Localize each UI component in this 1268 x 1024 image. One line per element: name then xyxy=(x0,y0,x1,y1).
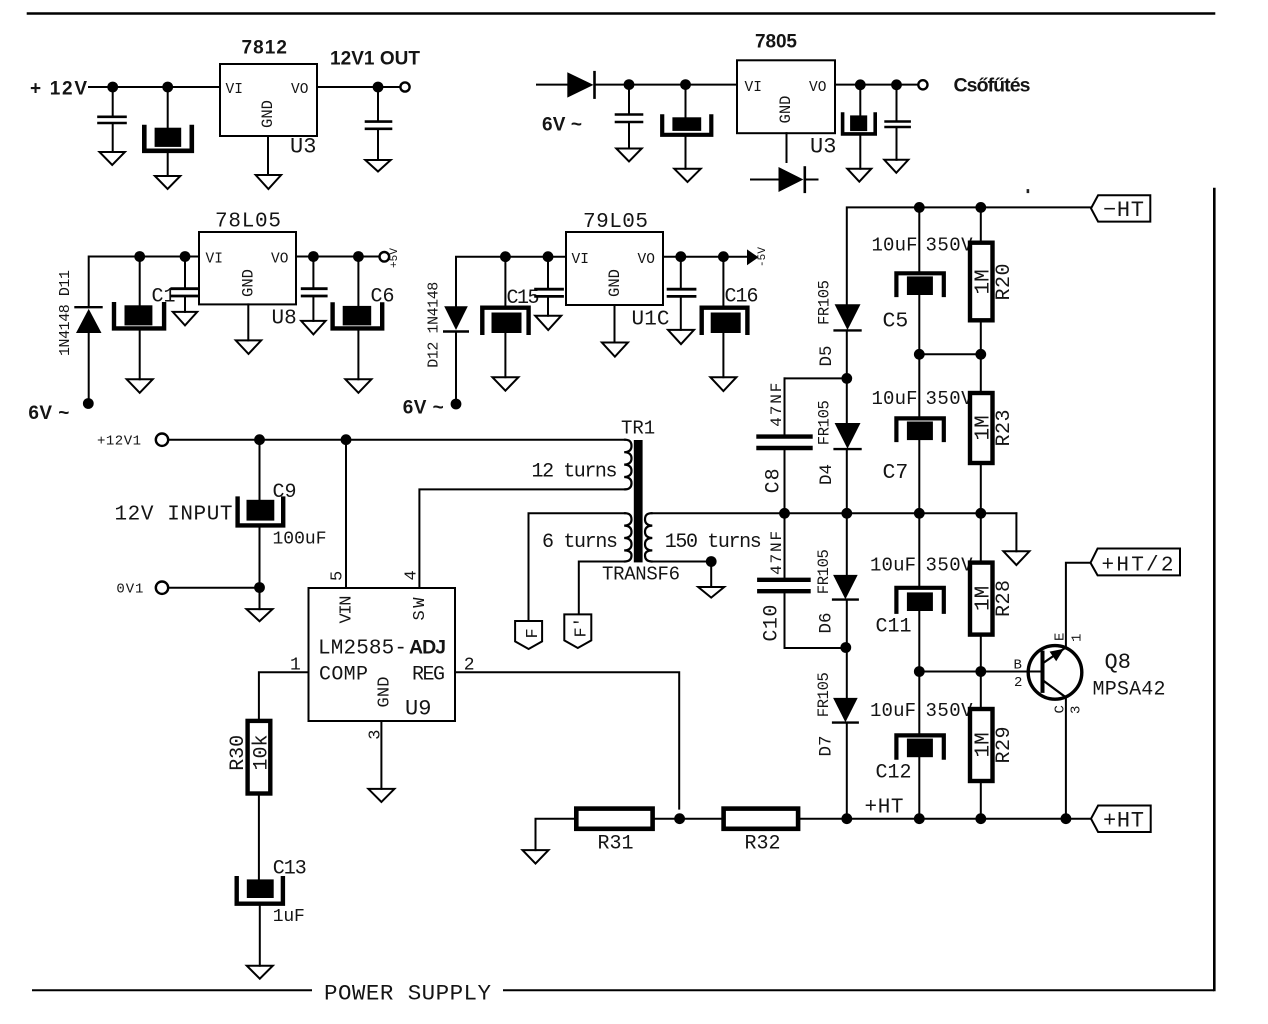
wire node to ground xyxy=(259,588,261,610)
svg-text:FR105: FR105 xyxy=(816,400,834,445)
ground at 7805 input electrolytic xyxy=(674,169,700,182)
svg-text:D12 1N4148: D12 1N4148 xyxy=(426,282,443,368)
svg-text:6V ~: 6V ~ xyxy=(542,115,582,136)
svg-text:POWER SUPPLY: POWER SUPPLY xyxy=(324,981,491,1007)
resistor R20 1M xyxy=(970,207,993,354)
svg-text:350V: 350V xyxy=(926,555,974,577)
svg-text:R20: R20 xyxy=(993,264,1016,301)
svg-text:B: B xyxy=(1014,658,1022,674)
node junction at C15 xyxy=(500,251,511,262)
svg-text:10uF: 10uF xyxy=(872,388,918,410)
svg-text:10uF: 10uF xyxy=(872,235,918,257)
capacitor ceramic at 79L05 VO xyxy=(668,257,695,330)
node junction row D at R23 R28 xyxy=(975,508,986,519)
node junction at C bypass cap xyxy=(107,82,118,93)
ground at C6 xyxy=(345,379,371,393)
ground at U8 GND xyxy=(236,340,261,354)
svg-text:D6: D6 xyxy=(817,612,837,633)
svg-text:FR105: FR105 xyxy=(815,672,833,717)
svg-text:350V: 350V xyxy=(926,700,974,722)
regulator U8 78L05 box xyxy=(199,232,296,304)
node junction at output cap xyxy=(373,82,384,93)
wire SW pin 4 to primary bottom xyxy=(419,489,625,588)
svg-text:2: 2 xyxy=(1014,675,1022,691)
ground at C1 xyxy=(127,379,153,393)
node junction at ceramic xyxy=(180,251,191,262)
svg-text:FR105: FR105 xyxy=(816,280,834,325)
capacitor electrolytic at 7805 output xyxy=(843,85,876,169)
wire row E base row xyxy=(919,671,1041,673)
capacitor ceramic at 78L05 VO xyxy=(302,257,326,321)
svg-text:U3: U3 xyxy=(810,135,836,160)
svg-text:5: 5 xyxy=(329,571,348,581)
node junction R20 bottom xyxy=(975,349,986,360)
svg-text:R31: R31 xyxy=(598,833,634,856)
svg-text:7805: 7805 xyxy=(755,32,797,53)
wire Q8 emitter to +HT/2 flag xyxy=(1066,563,1091,648)
diode D7 FR105 xyxy=(833,648,858,819)
node junction +HT at Q8 collector xyxy=(1061,813,1072,824)
wire node to ground xyxy=(710,562,712,588)
node junction row D at C7 C11 xyxy=(914,508,925,519)
ground at 150 turns xyxy=(698,587,724,598)
svg-text:+HT: +HT xyxy=(865,797,904,820)
node junction at C9 xyxy=(254,434,265,445)
svg-text:U8: U8 xyxy=(272,308,297,331)
wire GND pin 3 xyxy=(380,721,382,789)
svg-text:F: F xyxy=(524,628,543,638)
wire 6 turns bottom to flag F prime xyxy=(579,562,625,616)
wire U1C VO to -5V arrow xyxy=(663,256,747,258)
capacitor C11 electrolytic 10uF 350V xyxy=(896,513,943,671)
arrow -5V output xyxy=(747,249,759,265)
svg-text:12V1 OUT: 12V1 OUT xyxy=(330,49,420,70)
svg-text:C9: C9 xyxy=(273,481,297,504)
svg-text:+HT/2: +HT/2 xyxy=(1102,555,1174,578)
wire node to C8 xyxy=(785,377,847,379)
svg-text:10k: 10k xyxy=(251,735,274,771)
capacitor electrolytic at 7812 input xyxy=(144,87,192,176)
svg-text:GND: GND xyxy=(606,269,624,297)
ground at 7805 input ceramic xyxy=(616,149,641,162)
node junction C5 top xyxy=(914,202,925,213)
svg-text:10uF: 10uF xyxy=(870,700,916,722)
ground at U9 GND xyxy=(368,789,394,802)
capacitor C7 electrolytic 10uF 350V xyxy=(896,354,943,513)
svg-text:−HT: −HT xyxy=(1103,198,1144,223)
svg-text:R30: R30 xyxy=(227,735,250,771)
svg-text:+5V: +5V xyxy=(389,248,401,268)
wire ground stub to R31 xyxy=(536,819,577,850)
svg-text:R32: R32 xyxy=(745,833,781,856)
svg-text:79L05: 79L05 xyxy=(583,211,648,234)
terminal +12V1 open circle xyxy=(156,434,168,446)
svg-text:350V: 350V xyxy=(926,388,974,410)
svg-text:VI: VI xyxy=(206,252,223,268)
node junction R28 R29 xyxy=(975,666,986,677)
capacitor electrolytic at 7805 input xyxy=(662,85,711,169)
svg-text:VI: VI xyxy=(572,252,589,268)
svg-text:D7: D7 xyxy=(817,735,837,756)
capacitor C13 electrolytic 1uF xyxy=(237,878,283,966)
svg-text:+HT: +HT xyxy=(1103,809,1144,834)
node junction at C6 xyxy=(353,251,364,262)
svg-text:+ 12V: + 12V xyxy=(30,79,87,100)
svg-text:VO: VO xyxy=(809,80,826,96)
svg-text:REG: REG xyxy=(412,664,445,687)
svg-text:C8: C8 xyxy=(763,468,786,493)
capacitor C5 electrolytic 10uF 350V xyxy=(896,207,943,354)
capacitor C8 47NF xyxy=(759,378,811,513)
svg-text:R23: R23 xyxy=(993,410,1016,447)
ground at R31 left xyxy=(523,850,549,864)
ground at 7812 input electrolytic xyxy=(155,176,180,189)
wire 6V to diode D12 xyxy=(455,333,457,400)
node junction +HT at C12 xyxy=(914,813,925,824)
svg-text:4: 4 xyxy=(403,570,422,580)
node junction R31 R32 feedback xyxy=(674,813,685,824)
svg-text:6 turns: 6 turns xyxy=(542,531,618,554)
capacitor ceramic at 7812 output xyxy=(366,87,391,160)
svg-text:LM2585-: LM2585- xyxy=(318,638,407,661)
wire COMP pin 1 to R30 xyxy=(259,672,309,721)
node junction +HT at R29 xyxy=(975,813,986,824)
svg-text:3: 3 xyxy=(1069,706,1085,714)
wire U3 VO to output terminal xyxy=(317,86,400,88)
node junction 6V feed xyxy=(83,398,94,409)
svg-text:VIN: VIN xyxy=(338,596,357,624)
wire U1C GND pin xyxy=(614,305,616,343)
ground at VI ceramic xyxy=(173,312,197,326)
svg-text:D5: D5 xyxy=(817,345,837,366)
secondary winding 150 turns xyxy=(645,513,652,561)
diode at 7805 input xyxy=(567,72,594,97)
svg-text:U3: U3 xyxy=(290,135,316,160)
wire row C5 R20 bottom xyxy=(919,353,981,355)
svg-text:COMP: COMP xyxy=(319,664,368,687)
wire 6V input to diode xyxy=(537,84,567,86)
wire +12V1 rail to transformer primary xyxy=(168,439,625,441)
node junction at output ceramic xyxy=(891,79,902,90)
diode D5 FR105 xyxy=(835,304,861,330)
wire Q8 collector to +HT rail xyxy=(1065,697,1067,818)
svg-text:150 turns: 150 turns xyxy=(665,531,762,554)
ground at 7812 output cap xyxy=(365,160,390,172)
ground at 7805 output ceramic xyxy=(884,160,908,173)
resistor R23 1M xyxy=(970,354,993,513)
transistor Q8 MPSA42 xyxy=(1028,646,1082,700)
regulator U3 7805 box xyxy=(737,60,835,133)
wire REG pin 2 to feedback node xyxy=(455,672,679,808)
diode D4 FR105 xyxy=(835,378,861,513)
wire R32 to +HT rail xyxy=(798,818,1091,820)
stray mark xyxy=(1027,189,1030,193)
ground at VO ceramic xyxy=(301,321,325,335)
wire U3 GND pin xyxy=(267,136,269,175)
svg-text:78L05: 78L05 xyxy=(215,211,281,234)
node junction at VO ceramic xyxy=(675,251,686,262)
wire U3 GND pin xyxy=(786,133,788,162)
wire +12V input to U3 VI xyxy=(89,86,220,88)
svg-text:1: 1 xyxy=(1070,634,1086,642)
svg-text:TRANSF6: TRANSF6 xyxy=(602,564,680,586)
svg-text:TR1: TR1 xyxy=(621,418,655,440)
svg-text:GND: GND xyxy=(259,100,277,128)
regulator U3 7812 box xyxy=(220,64,317,136)
wire VIN pin 5 xyxy=(345,440,347,588)
wire U3 VO to terminal xyxy=(835,84,918,86)
wire U8 VO to +5V terminal xyxy=(296,256,380,258)
svg-text:GND: GND xyxy=(240,269,258,297)
terminal 0V1 open circle xyxy=(156,582,168,594)
svg-text:U1C: U1C xyxy=(632,309,670,332)
ground at 7805 output electrolytic xyxy=(847,169,871,182)
resistor R31 xyxy=(576,809,652,829)
capacitor C9 electrolytic 100uF xyxy=(238,440,284,588)
node junction at VI ceramic xyxy=(543,251,554,262)
flag F xyxy=(515,621,542,649)
ground at C16 xyxy=(710,377,736,391)
wire R30 to C13 xyxy=(258,794,260,880)
capacitor C16 electrolytic xyxy=(702,257,748,378)
svg-text:F': F' xyxy=(573,617,592,637)
svg-text:6V ~: 6V ~ xyxy=(403,398,444,419)
svg-text:GND: GND xyxy=(777,96,795,124)
svg-text:3: 3 xyxy=(367,729,386,739)
capacitor C6 electrolytic xyxy=(333,257,383,380)
capacitor ceramic at 7805 output xyxy=(886,85,910,160)
svg-text:C5: C5 xyxy=(883,310,909,334)
node junction D5 D4 C8 xyxy=(841,373,852,384)
svg-text:-5V: -5V xyxy=(757,247,769,267)
svg-text:12V INPUT: 12V INPUT xyxy=(115,504,233,527)
svg-text:C12: C12 xyxy=(876,762,912,785)
wire R31 to R32 xyxy=(653,818,724,820)
svg-text:12 turns: 12 turns xyxy=(532,461,618,484)
wire U8 GND pin xyxy=(247,304,249,340)
svg-text:1uF: 1uF xyxy=(273,907,305,927)
diode D12 1N4148 xyxy=(444,306,468,331)
svg-text:R29: R29 xyxy=(993,727,1016,764)
svg-text:C7: C7 xyxy=(883,461,909,485)
node junction C5 bottom xyxy=(914,349,925,360)
node junction D6 D7 C10 xyxy=(840,642,851,653)
diode D11 1N4148 xyxy=(76,307,102,333)
terminal +5V open circle xyxy=(380,252,390,262)
flag +HT/2 xyxy=(1091,549,1181,576)
capacitor C15 electrolytic xyxy=(482,257,528,378)
node junction row D at diode chain xyxy=(841,508,852,519)
node junction R20 top xyxy=(975,202,986,213)
terminal 12V1 OUT open circle xyxy=(400,82,409,91)
svg-text:6V ~: 6V ~ xyxy=(28,403,69,424)
svg-text:C10: C10 xyxy=(761,605,784,642)
resistor R29 1M xyxy=(970,672,993,819)
ground at C13 xyxy=(247,966,273,979)
diode D6 FR105 xyxy=(833,513,858,647)
svg-text:C13: C13 xyxy=(273,858,307,881)
wire diode to U3 VI xyxy=(595,84,738,86)
ground at 0V1 xyxy=(247,609,273,621)
svg-text:C11: C11 xyxy=(876,616,912,639)
svg-text:FR105: FR105 xyxy=(815,549,833,594)
svg-text:D4: D4 xyxy=(817,464,837,485)
capacitor C1 electrolytic xyxy=(114,257,164,380)
ground at 79L05 VO ceramic xyxy=(668,330,694,344)
resistor R32 xyxy=(724,809,799,829)
node junction C11 C12 xyxy=(914,666,925,677)
svg-text:+12V1: +12V1 xyxy=(97,434,141,450)
capacitor C10 47NF xyxy=(759,513,846,648)
wire 150 turns top to rectifier row xyxy=(652,512,1017,514)
node junction 6V feed 79L05 xyxy=(451,399,462,410)
node junction 150 turns ground xyxy=(706,556,717,567)
wire 6V to diode D11 xyxy=(88,333,90,399)
svg-text:350V: 350V xyxy=(926,235,974,257)
wire -HT rail xyxy=(847,207,1091,304)
svg-text:47NF: 47NF xyxy=(768,383,786,427)
ground at U3 GND xyxy=(256,175,281,189)
svg-text:1N4148 D11: 1N4148 D11 xyxy=(57,270,74,356)
ground at C15 xyxy=(492,377,518,391)
svg-text:VI: VI xyxy=(226,82,243,98)
svg-text:0V1: 0V1 xyxy=(116,582,143,598)
svg-text:U9: U9 xyxy=(405,697,431,722)
ground at 79L05 VI ceramic xyxy=(535,316,561,330)
svg-text:VO: VO xyxy=(291,82,308,98)
ground at U1C GND xyxy=(602,343,628,357)
ground at 7812 input ceramic xyxy=(100,152,125,165)
terminal Csofutes open circle xyxy=(918,80,927,89)
title divider line left xyxy=(33,989,311,991)
node junction at VIN branch xyxy=(341,434,352,445)
converter U9 LM2585 box xyxy=(309,588,456,721)
wire D5 to node xyxy=(846,330,848,378)
flag -HT xyxy=(1091,195,1150,221)
capacitor ceramic at 78L05 VI xyxy=(172,257,198,312)
wire 0V1 to ground node xyxy=(168,587,259,589)
svg-text:VO: VO xyxy=(271,252,288,268)
resistor R28 1M xyxy=(970,513,993,671)
svg-text:47NF: 47NF xyxy=(768,531,786,575)
svg-text:GND: GND xyxy=(376,677,395,708)
border frame right line xyxy=(1213,189,1216,990)
svg-text:C16: C16 xyxy=(725,286,759,309)
node junction 0V1 ground xyxy=(254,582,265,593)
node junction at C16 xyxy=(718,251,729,262)
svg-text:100uF: 100uF xyxy=(273,530,327,550)
node junction row D at C8 xyxy=(779,508,790,519)
node junction at electrolytic xyxy=(680,79,691,90)
capacitor C12 electrolytic 10uF 350V xyxy=(896,672,943,819)
regulator U1C 79L05 box xyxy=(566,232,663,305)
ground at row D xyxy=(1003,551,1029,565)
transformer TR1 core xyxy=(634,440,643,562)
diode at 7805 GND lift xyxy=(751,167,818,192)
flag +HT xyxy=(1091,806,1151,833)
secondary winding 6 turns xyxy=(624,513,631,561)
wire 6 turns top to flag F xyxy=(529,513,626,622)
svg-text:VI: VI xyxy=(745,80,762,96)
resistor R30 xyxy=(248,721,271,794)
svg-text:C6: C6 xyxy=(371,286,395,309)
title divider line right xyxy=(504,989,1213,991)
node junction at electrolytic cap xyxy=(162,82,173,93)
svg-text:7812: 7812 xyxy=(242,38,288,59)
node junction at VO ceramic xyxy=(308,251,319,262)
svg-text:Q8: Q8 xyxy=(1105,650,1131,675)
svg-text:R28: R28 xyxy=(993,580,1016,617)
node junction +HT at R32 xyxy=(841,813,852,824)
wire D11 to rail corner xyxy=(89,257,199,308)
wire 150 turns bottom to ground xyxy=(652,561,712,563)
svg-text:MPSA42: MPSA42 xyxy=(1093,679,1166,702)
svg-text:10uF: 10uF xyxy=(870,555,916,577)
svg-text:Csőfűtés: Csőfűtés xyxy=(954,75,1031,97)
capacitor ceramic at 7812 input xyxy=(99,87,126,152)
border frame top line xyxy=(28,12,1214,15)
svg-text:SW: SW xyxy=(411,597,430,621)
primary winding 12 turns xyxy=(624,440,631,490)
svg-text:ADJ: ADJ xyxy=(409,637,446,659)
node junction at ceramic xyxy=(624,79,635,90)
flag F prime xyxy=(564,614,591,648)
wire row D to ground stub xyxy=(1015,513,1017,551)
node junction at output electrolytic xyxy=(855,79,866,90)
wire D12 to rail corner xyxy=(456,257,566,307)
node junction at C1 xyxy=(134,251,145,262)
svg-text:VO: VO xyxy=(638,252,655,268)
capacitor ceramic at 7805 input xyxy=(616,85,642,149)
capacitor ceramic at 79L05 VI xyxy=(536,257,563,316)
